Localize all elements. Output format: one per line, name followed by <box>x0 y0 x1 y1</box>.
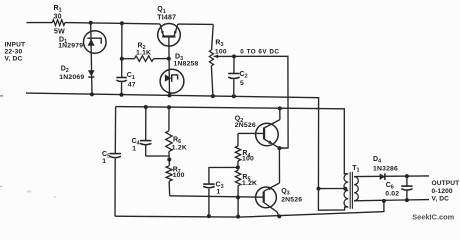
svg-text:0.02: 0.02 <box>385 190 399 197</box>
svg-text:V, DC: V, DC <box>432 195 450 202</box>
svg-text:0 TO 6V DC: 0 TO 6V DC <box>240 48 279 55</box>
svg-text:30: 30 <box>54 14 62 21</box>
svg-text:0-1200: 0-1200 <box>432 188 453 195</box>
svg-text:1.1K: 1.1K <box>136 50 151 57</box>
svg-text:1.2K: 1.2K <box>242 180 257 187</box>
svg-text:2N526: 2N526 <box>281 196 302 203</box>
svg-text:V, DC: V, DC <box>5 55 23 62</box>
svg-text:TI487: TI487 <box>157 14 176 21</box>
svg-text:1N8258: 1N8258 <box>174 61 199 68</box>
svg-text:1N3286: 1N3286 <box>373 166 398 173</box>
svg-text:SeekIC.com: SeekIC.com <box>412 212 454 221</box>
svg-text:100: 100 <box>173 172 185 179</box>
svg-text:2N526: 2N526 <box>235 122 256 129</box>
svg-text:100: 100 <box>242 156 254 163</box>
svg-text:5W: 5W <box>54 29 65 36</box>
svg-text:INPUT: INPUT <box>5 41 26 48</box>
svg-text:OUTPUT: OUTPUT <box>432 180 460 187</box>
svg-text:1: 1 <box>217 188 221 195</box>
svg-text:1N2069: 1N2069 <box>59 74 84 81</box>
svg-text:100: 100 <box>215 48 227 55</box>
svg-text:1: 1 <box>132 146 136 153</box>
svg-text:1.2K: 1.2K <box>172 144 187 151</box>
svg-text:47: 47 <box>128 81 136 88</box>
svg-text:1N2979: 1N2979 <box>58 43 83 50</box>
svg-text:1: 1 <box>102 158 106 165</box>
svg-text:5: 5 <box>240 80 244 87</box>
